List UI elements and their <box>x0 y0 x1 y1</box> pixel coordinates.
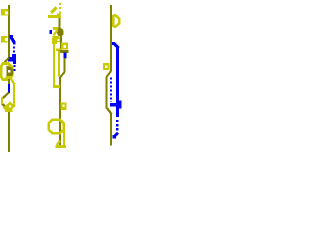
wire net3 olive vertical upper (right column) <box>110 5 112 72</box>
pad P7 (left of net3) <box>103 63 110 70</box>
pad P1 (top-left pin pad) <box>1 9 9 16</box>
component S1 top bar <box>53 27 59 30</box>
component S1 bottom bar <box>53 36 60 39</box>
wire olive dashed segment <box>59 113 61 121</box>
wire blue branch stub <box>112 44 119 49</box>
wire blue segment on net1 <box>8 84 10 93</box>
via V3 (small ring) <box>56 38 61 43</box>
pad P6 (D shaped ring) <box>113 15 119 27</box>
wire blue segment net2 <box>64 53 67 59</box>
component S1 diagonal <box>54 31 58 36</box>
wire yellow bottom bar <box>56 145 67 148</box>
wire yellow bar under V2 <box>5 110 13 113</box>
wire blue trace B1 dashed segment <box>13 47 15 58</box>
junction blue bulge <box>116 101 121 109</box>
wire blue dashed lower <box>116 120 119 133</box>
via V4 (octagon ring mid column) <box>49 120 64 134</box>
wire blue arrow to net3 <box>113 133 118 138</box>
wire yellow bar below V1 <box>6 76 13 79</box>
wire yellow diagonal end <box>57 141 60 146</box>
component S1 olive blob <box>57 28 64 36</box>
wire yellow stub wide <box>52 38 57 44</box>
wire blue dashed center <box>110 78 112 103</box>
wire yellow horizontal bar <box>48 15 60 18</box>
wire net2 olive main lower <box>59 77 61 145</box>
wire olive bar <box>58 50 69 53</box>
wire net1 segment A (left column main vertical) <box>8 5 10 59</box>
wire yellow right drop <box>63 124 65 146</box>
pad P2 (left pin pad) <box>1 36 8 43</box>
wire net2 olive vertical upper <box>59 18 61 29</box>
wire yellow arrow diagonal <box>51 8 57 14</box>
wire net1 stub olive <box>8 79 10 85</box>
wire blue dashed below J1 <box>13 65 15 71</box>
wire net2 olive right vertical <box>64 58 66 72</box>
wire yellow right branch vertical <box>13 84 15 107</box>
wire net3 jog left diagonal <box>107 71 112 77</box>
wire yellow line1 vertical <box>53 42 55 87</box>
wire olive left branch diagonal <box>3 93 9 99</box>
wire yellow L join <box>53 85 60 88</box>
wire yellow left branch vertical <box>1 97 3 105</box>
pad P4 (box ring) <box>61 43 68 50</box>
pad blue P3 <box>50 30 53 34</box>
blue junction J1 (thick hook) <box>8 54 16 64</box>
wire yellow corner L <box>57 14 61 19</box>
via V1 (octagon ring) <box>1 64 12 80</box>
pad P5 (right of net2) <box>61 103 67 111</box>
wire blue right vertical solid <box>116 47 119 117</box>
wire olive left branch lower diagonal <box>3 104 8 110</box>
wire yellow dashed top (mid column) <box>59 3 61 20</box>
wire blue T bar <box>110 103 119 106</box>
wire net3 lower vertical <box>110 114 112 146</box>
wire net2 olive jog diagonal <box>60 72 65 78</box>
wire yellow left branch lower diagonal <box>3 107 8 112</box>
wire net2 olive mid <box>60 35 62 51</box>
wire yellow right branch diagonal <box>11 79 15 85</box>
wire net1 diagonal into via V1 <box>4 58 9 64</box>
pad wedge W1 (olive fill on V1) <box>7 66 14 78</box>
wire yellow bar at 50 <box>56 49 62 51</box>
wire net3 jog right diagonal <box>107 108 112 115</box>
wire net1 segment C (lower vertical) <box>8 112 10 152</box>
wire yellow line2 vertical <box>58 51 60 77</box>
via V2 (small ring pad at branch merge) <box>7 103 13 110</box>
wire blue trace B1 (diagonal from net1) <box>10 35 16 45</box>
wire net3 left vertical <box>106 77 108 108</box>
